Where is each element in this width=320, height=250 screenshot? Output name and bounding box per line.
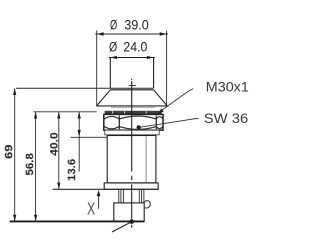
dimension 69 line <box>14 88 16 221</box>
svg-text:Ø: Ø <box>109 39 118 54</box>
bottom rim <box>104 183 158 189</box>
bezel top edge <box>110 89 153 91</box>
actuation point dot <box>129 219 134 224</box>
svg-text:39.0: 39.0 <box>124 18 149 33</box>
M30x1 leader line <box>159 89 194 113</box>
bezel under edge <box>111 107 155 109</box>
dimension 56.8 line <box>35 112 37 222</box>
svg-text:SW 36: SW 36 <box>204 110 249 126</box>
baseline / terminal end line <box>10 220 145 222</box>
cap bottom edge + 69 extension line <box>16 87 154 89</box>
SW 36 leader dot <box>137 125 141 129</box>
body cylinder <box>107 136 156 183</box>
bezel left slope <box>97 90 111 106</box>
bezel bottom edge <box>97 105 168 107</box>
left post <box>119 190 124 203</box>
extension line Ø39 left <box>96 31 98 107</box>
svg-text:13.6: 13.6 <box>66 159 78 181</box>
terminal block <box>114 203 144 221</box>
rim bottom / 40.0 extension line <box>53 188 159 190</box>
dimension X arrow <box>97 190 101 196</box>
solder lug <box>144 201 150 208</box>
dimension Ø24.0 label <box>109 39 147 54</box>
dimension line Ø39 <box>95 33 168 35</box>
svg-text:40.0: 40.0 <box>49 132 61 156</box>
dimension Ø39.0 label <box>110 18 149 33</box>
M30x1 leader arrowhead <box>157 109 164 115</box>
svg-text:56.8: 56.8 <box>24 153 36 175</box>
washer under nut <box>105 130 159 135</box>
svg-text:69: 69 <box>3 145 15 160</box>
svg-text:24.0: 24.0 <box>123 39 147 54</box>
thread M30x1 band <box>105 111 162 115</box>
svg-text:Ø: Ø <box>110 18 118 33</box>
nut facet line right <box>155 116 157 130</box>
center tick <box>129 85 136 87</box>
dimension 13.6 line <box>78 112 80 172</box>
nut facet line left <box>118 116 120 130</box>
dimension 40.0 line <box>58 112 60 190</box>
right post <box>139 190 144 203</box>
nut chamfer arcs <box>104 116 163 129</box>
body cosmetic line <box>145 136 147 182</box>
extension line Ø39 right <box>166 31 168 107</box>
pointer diagonal <box>112 222 131 232</box>
extension line nut top level <box>33 111 96 113</box>
svg-text:X: X <box>87 198 95 218</box>
svg-text:M30x1: M30x1 <box>206 79 249 95</box>
centerline <box>131 79 133 228</box>
hex nut SW36 outline <box>104 114 163 130</box>
extension line 13.6 bottom <box>71 136 108 138</box>
button cap sides <box>109 58 111 89</box>
SW 36 leader line <box>139 119 199 128</box>
bezel right slope <box>154 90 168 106</box>
dimension line Ø24 / cap top edge <box>109 57 155 59</box>
